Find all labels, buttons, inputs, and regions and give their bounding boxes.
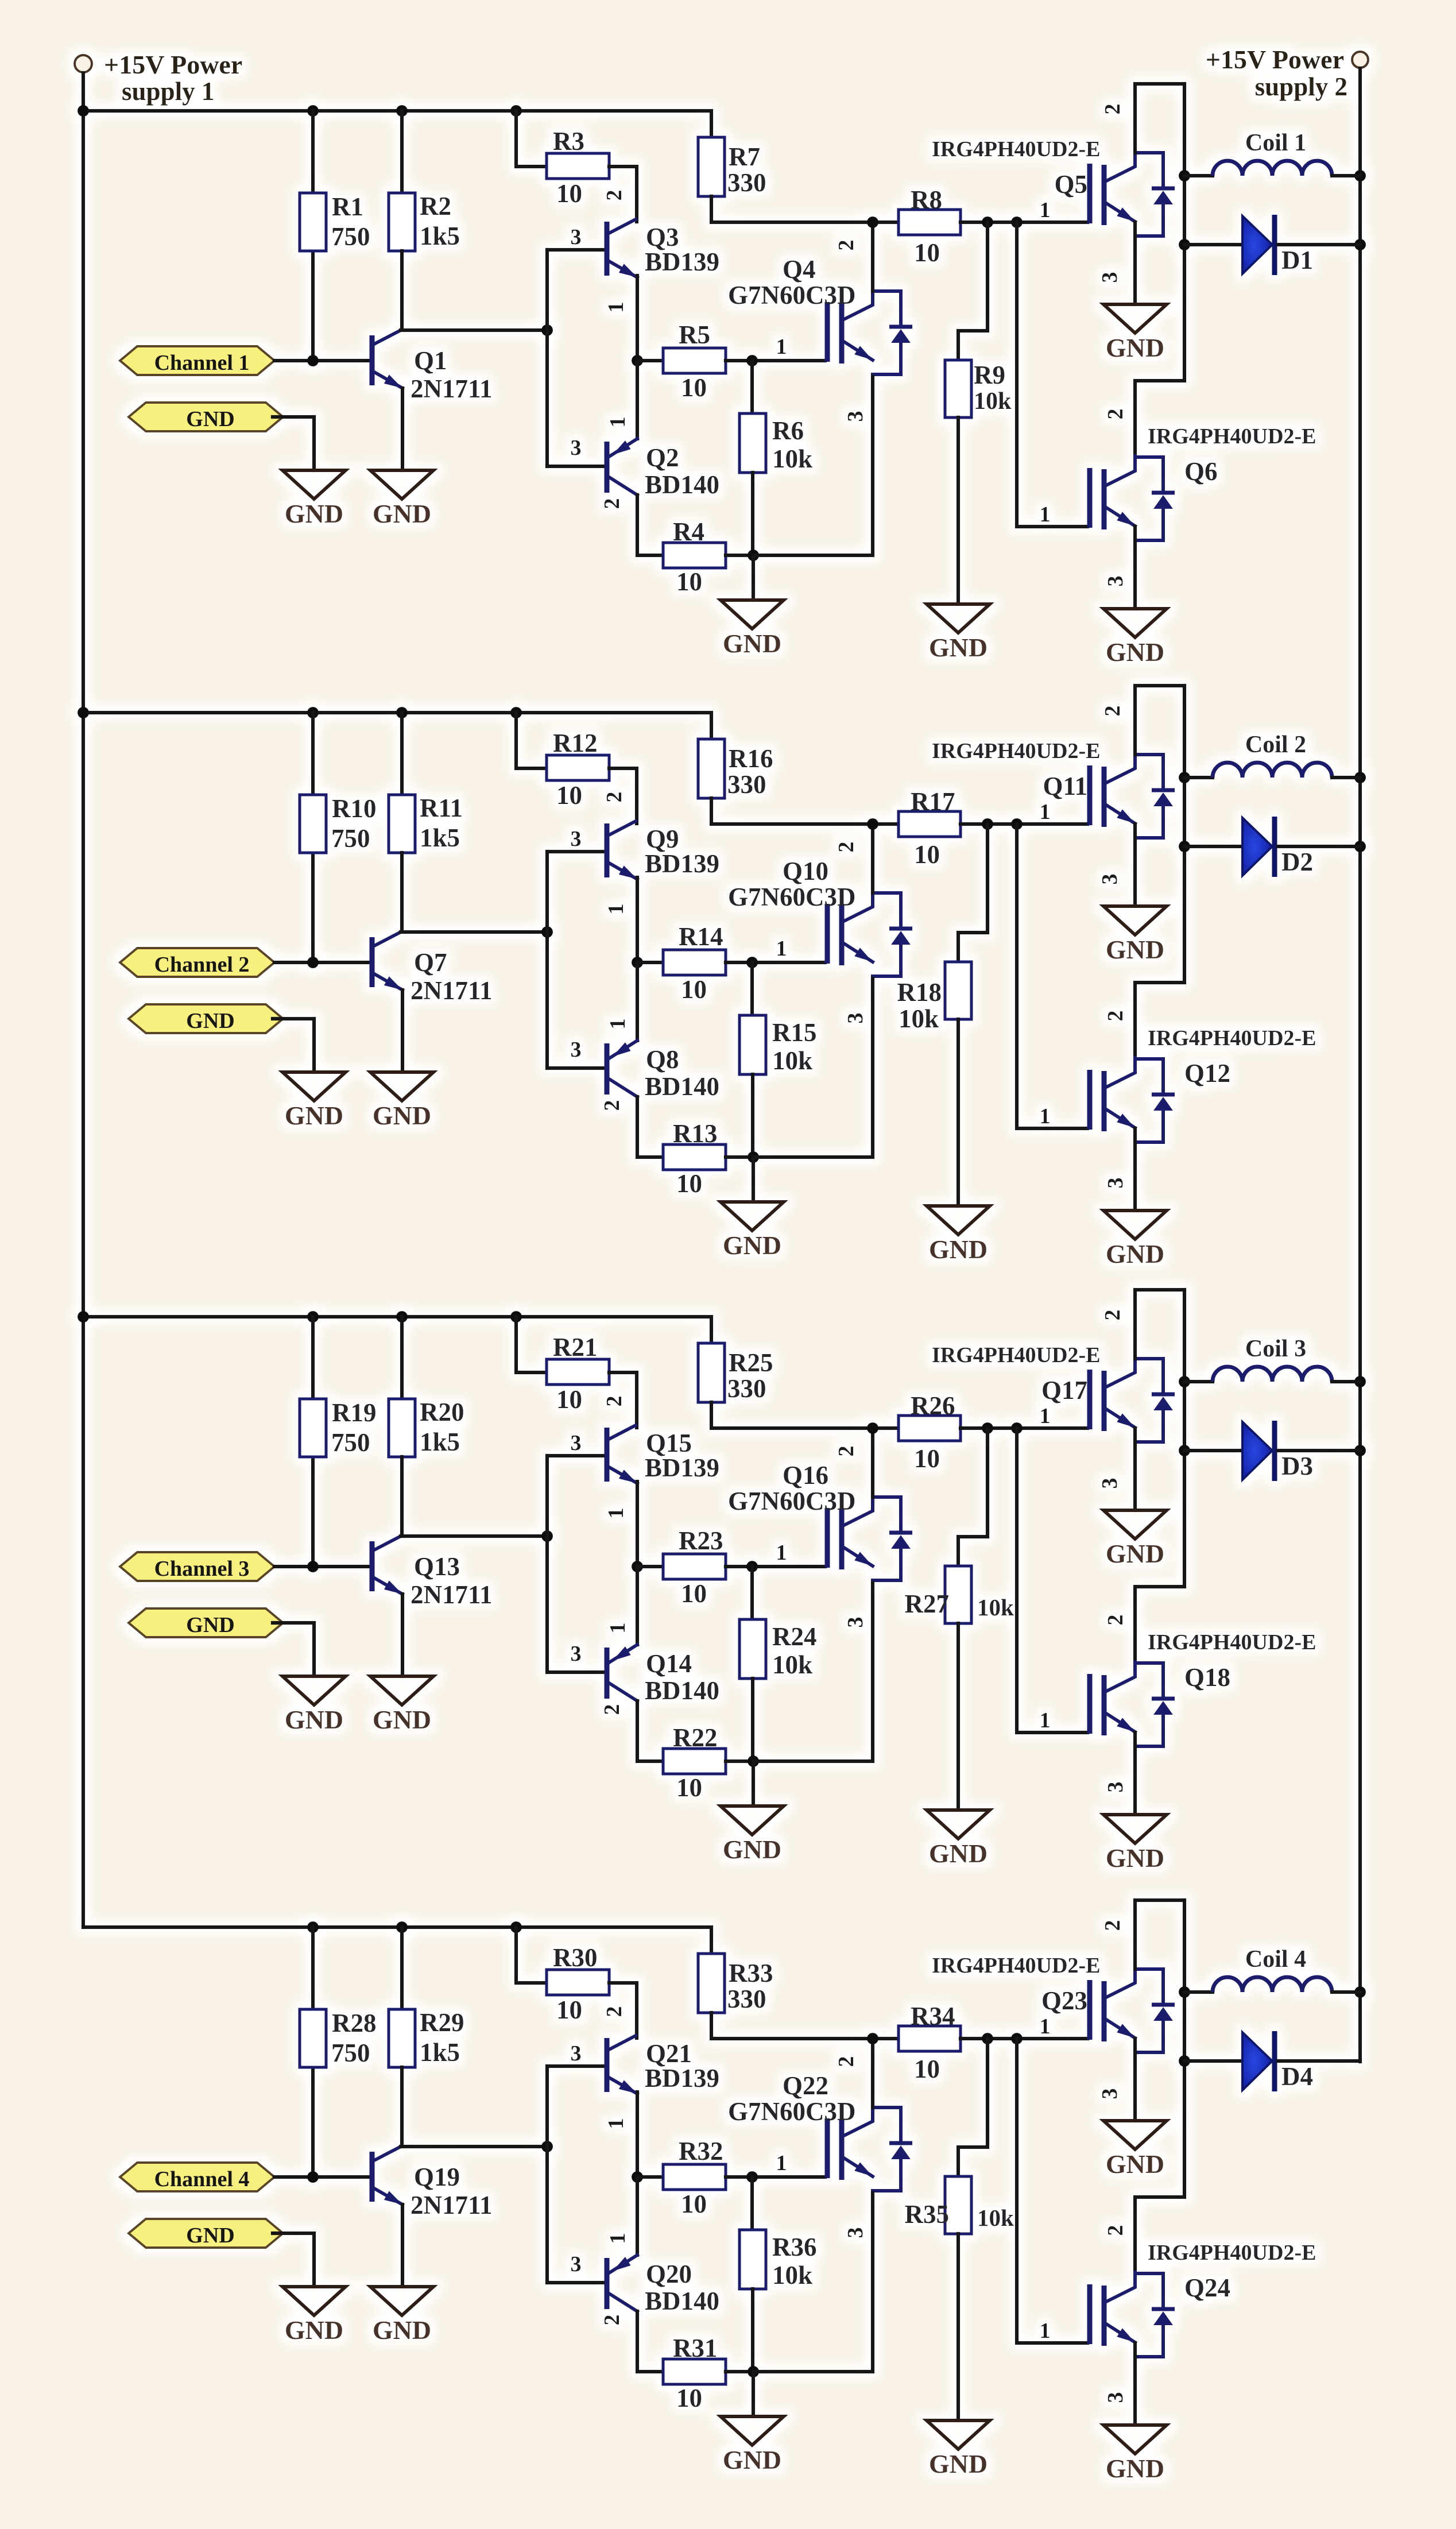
svg-text:Coil 2: Coil 2 [1245,732,1306,758]
junction [78,707,89,718]
ground [1103,1510,1167,1568]
svg-text:Q19: Q19 [414,2163,460,2191]
junction [1354,772,1366,783]
svg-text:Q6: Q6 [1184,457,1218,486]
wire emitter [753,2193,873,2372]
svg-text:D3: D3 [1281,1452,1313,1480]
svg-text:2: 2 [1103,409,1128,420]
svg-text:330: 330 [727,770,766,799]
svg-text:R8: R8 [911,185,942,214]
resistor R16 [698,739,725,798]
wire rail [711,1402,899,1428]
resistor R20 [389,1399,415,1457]
svg-text:750: 750 [331,1428,370,1457]
svg-text:G7N60C3D: G7N60C3D [728,883,856,911]
junction [746,957,758,968]
junction [1011,1422,1023,1434]
wire [1184,174,1213,177]
svg-text:10k: 10k [977,1594,1014,1621]
svg-text:3: 3 [1103,576,1128,587]
junction [867,1422,878,1434]
wire [961,822,1087,826]
resistor R36 [739,2230,766,2289]
wire [750,361,754,413]
wire +15V bus channel 4 [83,1927,711,1954]
svg-text:Q13: Q13 [414,1552,460,1581]
junction [867,818,878,830]
junction [1354,239,1366,250]
svg-text:2: 2 [1103,2225,1128,2236]
svg-text:2: 2 [834,2056,858,2067]
svg-text:Q17: Q17 [1041,1376,1087,1405]
inductor Coil 3 [1213,1367,1332,1382]
svg-text:IRG4PH40UD2-E: IRG4PH40UD2-E [932,1954,1100,1978]
transistor Q20 BD140 [607,2255,637,2311]
svg-text:750: 750 [331,824,370,853]
wire emitter [1133,527,1137,609]
svg-text:2: 2 [600,1704,624,1715]
inductor Coil 2 [1213,763,1332,778]
wire emitter [401,2205,404,2287]
junction [632,1561,643,1572]
wire base [547,1066,603,1070]
wire [1278,2059,1360,2063]
wire [958,1428,988,1566]
resistor R11 [389,795,415,853]
wire +15V bus channel 1 [83,111,711,137]
svg-text:1: 1 [1040,2014,1051,2039]
svg-text:GND: GND [929,633,988,662]
svg-text:GND: GND [929,1235,988,1264]
svg-text:2: 2 [600,2315,624,2326]
wire [400,1457,404,1536]
IGBT Q11 IRG4PH40UD2-E [1090,753,1175,838]
svg-text:10: 10 [556,1996,582,2024]
wire emitter [1133,2343,1137,2425]
wire [609,768,637,823]
junction [1354,1376,1366,1387]
svg-text:R17: R17 [911,787,955,816]
svg-text:330: 330 [727,1374,766,1403]
svg-text:GND: GND [723,2445,781,2474]
junction [510,1311,522,1322]
svg-text:2N1711: 2N1711 [411,2191,493,2219]
resistor R31 [663,2359,726,2384]
junction [746,1561,758,1572]
wire [609,1372,637,1428]
svg-text:R35: R35 [905,2200,950,2229]
junction [632,355,643,366]
svg-text:GND: GND [186,407,234,431]
wire [961,221,1087,224]
svg-text:R14: R14 [679,922,723,951]
transistor Q2 BD140 [607,439,637,495]
transistor Q21 BD139 [607,2036,637,2094]
wire [751,473,754,555]
svg-text:R9: R9 [974,361,1005,389]
wire collector [637,1701,663,1761]
wire [311,1927,315,2177]
svg-text:+15V Power: +15V Power [104,50,242,79]
resistor R22 [663,1749,726,1774]
svg-text:3: 3 [571,1642,582,1666]
wire [400,1317,404,1399]
svg-text:R28: R28 [332,2009,377,2037]
svg-text:GND: GND [373,1101,431,1130]
resistor R5 [663,348,726,373]
svg-text:Q1: Q1 [414,346,447,375]
svg-text:BD139: BD139 [645,248,719,276]
wire base [547,248,603,252]
junction [1179,1986,1190,1998]
wire [400,1927,404,2009]
ground [1103,2121,1167,2179]
junction [541,2141,553,2152]
svg-text:R24: R24 [772,1622,817,1651]
svg-text:Q11: Q11 [1043,772,1087,801]
wire emitter [636,1482,639,1567]
junction [632,957,643,968]
wire [609,167,637,222]
wire emitter [1133,2039,1137,2121]
svg-text:1: 1 [1040,1404,1051,1428]
wire base [547,1670,603,1674]
wire collector [401,1534,547,1538]
svg-text:R11: R11 [420,794,463,822]
wire right +15V bus [1358,68,1362,2062]
svg-text:R31: R31 [673,2334,718,2362]
resistor R29 [389,2009,415,2067]
svg-text:1: 1 [1040,502,1051,527]
svg-text:R32: R32 [679,2137,723,2165]
wire input [274,1565,370,1568]
wire base rail [545,852,549,1068]
wire gate [1017,2039,1087,2343]
svg-text:R12: R12 [553,729,598,757]
svg-text:GND: GND [1106,1539,1164,1568]
junction [748,1151,759,1163]
junction [1179,170,1190,181]
junction [1354,841,1366,852]
junction [510,105,522,117]
svg-text:BD139: BD139 [645,2064,719,2093]
wire [636,962,639,1041]
svg-text:R19: R19 [332,1398,377,1427]
wire emitter [1133,222,1137,304]
svg-text:3: 3 [571,436,582,460]
resistor R19 [300,1399,326,1457]
svg-text:GND: GND [373,2315,431,2345]
resistor R33 [698,1954,725,2013]
svg-text:R23: R23 [679,1526,723,1555]
svg-text:GND: GND [1106,333,1164,362]
svg-text:R3: R3 [553,127,584,156]
wire link [1135,1290,1184,1662]
wire [751,1679,754,1761]
junction [867,216,878,228]
svg-text:R34: R34 [911,2002,955,2031]
input flag Channel 4 [120,2163,274,2191]
wire base [547,1454,603,1457]
wire [516,111,547,167]
junction [982,2033,993,2044]
svg-text:1: 1 [606,417,630,428]
transistor Q19 2N1711 [372,2147,402,2205]
resistor R10 [300,795,326,853]
wire [750,1567,754,1619]
junction [541,926,553,938]
wire [1184,845,1242,848]
resistor R27 [945,1566,971,1623]
wire input [274,359,370,362]
ground [721,2416,784,2474]
svg-text:R5: R5 [679,320,710,349]
junction [748,2366,759,2377]
svg-text:3: 3 [1098,874,1122,885]
junction [1179,841,1190,852]
wire emitter [1133,1128,1137,1211]
input flag Channel 1 [120,346,274,375]
wire collector [401,2145,547,2148]
junction [1354,1445,1366,1456]
wire [311,713,315,962]
svg-text:R29: R29 [420,2008,464,2037]
transistor Q14 BD140 [607,1645,637,1701]
svg-text:IRG4PH40UD2-E: IRG4PH40UD2-E [932,739,1100,763]
svg-text:Q10: Q10 [783,857,828,885]
svg-text:R20: R20 [420,1398,464,1426]
wire rail [711,196,899,222]
wire link [1135,686,1184,1058]
junction [396,707,408,718]
svg-text:R27: R27 [905,1590,950,1618]
svg-text:GND: GND [723,1835,781,1864]
svg-text:2: 2 [1103,1615,1128,1626]
wire base [547,2064,603,2068]
svg-text:2: 2 [602,190,626,201]
wire [273,1019,314,1072]
svg-text:10: 10 [914,1444,940,1473]
wire [961,1426,1087,1430]
IGBT Q22 G7N60C3D [827,2106,912,2191]
wire emitter [401,388,404,470]
transistor Q7 2N1711 [372,932,402,990]
wire [958,824,988,962]
svg-text:3: 3 [571,1038,582,1062]
wire [752,2372,755,2416]
wire emitter [753,1583,873,1761]
wire base rail [545,250,549,466]
svg-text:Q7: Q7 [414,948,447,977]
svg-text:3: 3 [1103,1178,1128,1189]
input flag Channel 3 [120,1552,274,1581]
wire [961,2037,1087,2040]
wire emitter [1133,824,1137,906]
svg-text:1k5: 1k5 [420,222,460,250]
wire link [1135,1900,1184,2273]
IGBT Q23 IRG4PH40UD2-E [1090,1968,1175,2052]
ground [927,1810,990,1868]
wire rail [711,798,899,824]
svg-text:2: 2 [1101,1920,1125,1931]
svg-text:2: 2 [600,498,624,509]
svg-text:1: 1 [776,335,787,359]
junction [78,105,89,117]
wire rail [711,2013,899,2039]
svg-text:10: 10 [676,567,702,596]
svg-text:GND: GND [186,2223,234,2248]
svg-text:10: 10 [914,2055,940,2083]
wire base [547,850,603,853]
svg-text:Q2: Q2 [646,443,679,472]
svg-text:Q8: Q8 [646,1045,679,1074]
svg-text:GND: GND [723,629,781,658]
wire [1184,1449,1242,1452]
svg-text:10: 10 [556,1385,582,1414]
svg-text:IRG4PH40UD2-E: IRG4PH40UD2-E [1148,1630,1316,1654]
svg-text:GND: GND [285,1101,343,1130]
diode D4 [1242,2031,1275,2091]
wire collector [871,824,874,893]
wire collector [1135,84,1184,153]
wire collector [1135,1900,1184,1969]
svg-text:IRG4PH40UD2-E: IRG4PH40UD2-E [1148,1026,1316,1050]
resistor R4 [663,543,726,568]
wire collector [401,930,547,934]
junction [746,355,758,366]
junction [510,707,522,718]
wire gate [726,359,825,362]
ground [1103,1211,1167,1269]
resistor R24 [739,1619,766,1679]
wire [751,2289,754,2372]
svg-text:1: 1 [606,1623,630,1634]
wire gate [726,2175,825,2179]
svg-text:10: 10 [681,975,707,1004]
svg-text:IRG4PH40UD2-E: IRG4PH40UD2-E [932,1343,1100,1367]
wire [1278,243,1360,246]
svg-text:10k: 10k [772,444,812,473]
svg-text:GND: GND [723,1231,781,1260]
svg-text:2: 2 [834,240,858,251]
wire emitter [401,990,404,1072]
svg-text:Q20: Q20 [646,2260,692,2288]
ground [1103,609,1167,667]
svg-text:Channel 1: Channel 1 [154,351,250,375]
wire [400,111,404,193]
svg-text:D4: D4 [1281,2062,1313,2091]
wire [400,251,404,330]
wire base [547,2281,603,2284]
wire [636,361,639,439]
resistor R26 [899,1416,961,1441]
svg-text:330: 330 [727,1985,766,2013]
ground [1103,1815,1167,1873]
junction [307,707,319,718]
junction [307,2171,319,2183]
svg-text:R25: R25 [729,1348,773,1377]
ground [1103,906,1167,964]
resistor R6 [739,413,766,473]
wire [516,1317,547,1372]
junction [1179,239,1190,250]
junction [867,2033,878,2044]
resistor R21 [547,1359,609,1385]
wire emitter [401,1594,404,1676]
svg-text:G7N60C3D: G7N60C3D [728,2097,856,2126]
svg-text:10: 10 [914,840,940,869]
wire [1332,1990,1360,1994]
wire gate [1017,824,1087,1128]
svg-text:GND: GND [285,1705,343,1734]
transistor Q9 BD139 [607,821,637,879]
power terminal +15V supply 2 [1352,52,1368,68]
svg-text:1k5: 1k5 [420,2038,460,2067]
junction [396,1311,408,1322]
svg-text:G7N60C3D: G7N60C3D [728,1487,856,1515]
junction [1179,1376,1190,1387]
resistor R25 [698,1343,725,1402]
svg-text:1: 1 [606,2233,630,2244]
svg-text:2: 2 [600,1100,624,1111]
svg-text:2: 2 [1103,1011,1128,1022]
resistor R23 [663,1554,726,1579]
wire [1184,1380,1213,1383]
wire [752,1157,755,1202]
wire [400,713,404,795]
svg-text:R22: R22 [673,1723,718,1752]
ground [282,1676,346,1734]
svg-text:2: 2 [602,792,626,803]
svg-text:IRG4PH40UD2-E: IRG4PH40UD2-E [1148,2241,1316,2265]
svg-text:GND: GND [1106,1843,1164,1873]
svg-text:BD140: BD140 [645,2287,719,2315]
wire [752,1761,755,1806]
resistor R35 [945,2176,971,2234]
wire [957,417,960,604]
wire emitter [636,877,639,962]
wire [400,853,404,932]
wire gate [726,961,825,964]
wire gate [1017,222,1087,527]
wire [726,554,753,557]
wire [1184,1990,1213,1994]
wire collector [401,328,547,332]
junction [982,216,993,228]
IGBT Q18 IRG4PH40UD2-E [1090,1662,1175,1746]
svg-text:Coil 3: Coil 3 [1245,1336,1306,1362]
junction [982,1422,993,1434]
svg-text:R2: R2 [420,192,451,221]
svg-text:GND: GND [1106,2149,1164,2179]
svg-text:Q16: Q16 [783,1461,828,1490]
input flag GND [129,2219,283,2248]
svg-text:1: 1 [1040,2319,1051,2343]
svg-text:GND: GND [1106,2454,1164,2483]
svg-text:R15: R15 [772,1018,817,1047]
resistor R34 [899,2026,961,2051]
junction [1179,1445,1190,1456]
svg-text:10k: 10k [772,1650,812,1679]
svg-text:R18: R18 [897,978,942,1007]
svg-text:R1: R1 [332,192,363,221]
wire [1184,776,1213,779]
resistor R14 [663,950,726,975]
wire [1184,2059,1242,2063]
inductor Coil 1 [1213,161,1332,176]
transistor Q8 BD140 [607,1041,637,1097]
resistor R30 [547,1970,609,1995]
